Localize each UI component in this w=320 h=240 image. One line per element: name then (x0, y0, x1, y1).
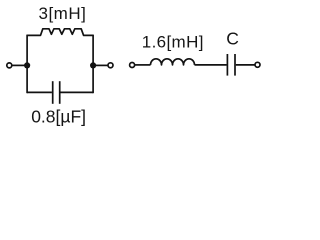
svg-text:1.6[mH]: 1.6[mH] (142, 32, 204, 51)
svg-text:0.8[µF]: 0.8[µF] (31, 106, 86, 126)
svg-text:C: C (226, 29, 239, 49)
svg-text:3[mH]: 3[mH] (39, 4, 87, 23)
